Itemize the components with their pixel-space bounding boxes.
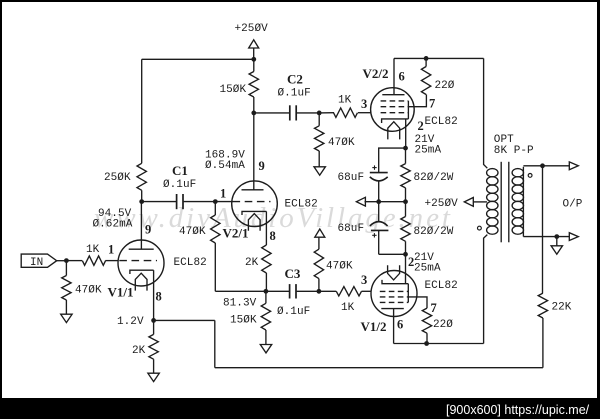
pentode V2/2 suppressor tie: [407, 101, 409, 119]
triode V2/1 heater: [248, 214, 260, 231]
wire cap2 to cathode node: [379, 253, 406, 255]
resistor 1K grid stopper V2/2: [319, 108, 371, 117]
node V2/2 grid junction: [317, 111, 322, 116]
pentode V1/2 cathode: [382, 280, 408, 284]
svg-text:ECL82: ECL82: [174, 257, 207, 269]
svg-text:Ø.1uF: Ø.1uF: [278, 88, 311, 100]
svg-text:6: 6: [399, 70, 405, 84]
svg-text:82Ø/2W: 82Ø/2W: [414, 172, 454, 184]
triode V2/1 cathode: [242, 211, 266, 215]
capacitor C3: [290, 284, 296, 298]
svg-text:7: 7: [431, 301, 437, 315]
wire plate to C2: [254, 112, 289, 114]
node V1/1 plate junction: [139, 199, 144, 204]
wire mid rail: [365, 201, 406, 203]
resistor 250K: [137, 163, 146, 201]
svg-text:8: 8: [156, 290, 162, 304]
node C3 output junction: [317, 289, 322, 294]
wire 470K to 81.3V node: [215, 290, 266, 292]
svg-text:9: 9: [145, 223, 151, 237]
svg-text:C3: C3: [285, 266, 301, 281]
pentode V2/2 heater: [388, 122, 400, 140]
triode V1/1 cathode: [130, 270, 154, 274]
svg-text:25mA: 25mA: [415, 145, 442, 157]
wire rail to primary top: [484, 58, 488, 168]
svg-text:V1/1: V1/1: [108, 285, 134, 300]
svg-text:C1: C1: [172, 163, 188, 178]
resistor 1K input: [66, 256, 105, 265]
svg-text:22Ø: 22Ø: [433, 319, 453, 331]
node mid rail cap junction: [376, 199, 381, 204]
capacitor C2: [290, 105, 296, 120]
svg-text:3: 3: [361, 273, 367, 287]
svg-text:81.3V: 81.3V: [223, 298, 257, 310]
svg-text:[900x600] https://upic.me/: [900x600] https://upic.me/: [446, 403, 590, 417]
pentode V2/2 plate: [382, 94, 404, 96]
node V2/1 plate junction: [251, 111, 256, 116]
pentode V2/2 screen grid: [381, 106, 409, 108]
svg-text:6: 6: [397, 318, 403, 332]
ground output: [551, 237, 562, 255]
svg-text:15ØK: 15ØK: [220, 84, 247, 96]
svg-text:V2/1: V2/1: [223, 226, 249, 241]
pentode V1/2 heater: [388, 265, 400, 280]
node 81.3V junction: [264, 289, 269, 294]
svg-text:ECL82: ECL82: [285, 199, 318, 211]
triode V2/1 envelope: [232, 181, 278, 227]
resistor 220 screen V2/2: [421, 58, 430, 94]
svg-text:68uF: 68uF: [338, 172, 365, 184]
ground below 150K: [260, 345, 271, 353]
triode V2/1 grid: [215, 201, 270, 203]
wire feedback horizontal from 1.2V: [154, 319, 215, 321]
transformer secondary phase dot: [528, 174, 532, 178]
pentode V1/2 screen grid: [380, 296, 409, 298]
wire secondary bottom: [523, 236, 569, 238]
svg-text:22Ø: 22Ø: [435, 80, 455, 92]
ground below 470K: [314, 167, 325, 175]
pentode V2/2 cathode: [382, 119, 409, 123]
node 1: [213, 199, 218, 204]
capacitor 68uF upper: [370, 173, 388, 202]
wire top-left horizontal: [142, 58, 254, 60]
power arrow above 470K: [315, 229, 325, 237]
svg-text:ECL82: ECL82: [425, 116, 458, 128]
svg-text:8K P-P: 8K P-P: [494, 145, 534, 157]
transformer OPT secondary winding: [512, 167, 523, 237]
svg-text:15ØK: 15ØK: [230, 315, 257, 327]
svg-text:+25ØV: +25ØV: [235, 23, 269, 35]
capacitor 68uF upper polarity +: [372, 165, 376, 169]
wire V1/1 plate lead: [140, 202, 142, 250]
wire left vertical to 250K: [141, 59, 143, 163]
svg-text:V2/2: V2/2: [363, 66, 389, 81]
resistor 150K to ground: [261, 291, 270, 344]
svg-text:ECL82: ECL82: [425, 280, 458, 292]
svg-text:1K: 1K: [338, 94, 352, 106]
svg-text:25ØK: 25ØK: [104, 172, 131, 184]
triode V1/1 envelope: [118, 240, 164, 286]
connector IN tag: [21, 254, 57, 267]
svg-text:Ø.1uF: Ø.1uF: [163, 179, 196, 191]
svg-text:1: 1: [108, 243, 114, 257]
node +250V supply junction: [251, 57, 256, 62]
svg-text:1K: 1K: [86, 244, 100, 256]
pentode V2/2 suppressor grid: [381, 100, 409, 102]
resistor 470K grid leak V2/1: [211, 202, 220, 292]
svg-text:Ø.54mA: Ø.54mA: [205, 160, 245, 172]
pentode V2/2 envelope: [371, 88, 415, 132]
wire node to C3: [266, 290, 289, 292]
wire V1/1 cathode lead: [153, 270, 155, 320]
resistor 470K input: [62, 261, 71, 315]
wire C2 to grid node: [297, 112, 319, 114]
svg-text:2K: 2K: [245, 257, 259, 269]
triode V1/1 grid: [106, 260, 158, 262]
resistor 2K cathode V2/1: [262, 245, 271, 291]
pentode V1/2 control grid: [380, 290, 409, 292]
svg-text:IN: IN: [30, 257, 43, 269]
resistor 470K grid leak V1/2: [314, 237, 323, 291]
pentode V2/2 control grid: [381, 112, 409, 114]
node output top junction: [540, 163, 545, 168]
node 220 bottom junction: [424, 341, 429, 346]
wire primary bottom to rail: [484, 235, 488, 344]
ground below input 470K: [61, 314, 72, 322]
capacitor 68uF lower: [370, 202, 389, 255]
svg-text:1: 1: [220, 187, 226, 201]
pentode V1/2 plate: [381, 308, 404, 310]
svg-text:22K: 22K: [552, 302, 572, 314]
svg-text:7: 7: [429, 97, 435, 111]
svg-text:25mA: 25mA: [414, 263, 441, 275]
resistor 2K cathode V1/1: [149, 320, 158, 373]
resistor 150K plate load: [249, 59, 258, 113]
power arrow mid rail: [356, 197, 365, 206]
svg-text:47ØK: 47ØK: [326, 261, 353, 273]
resistor 22K feedback: [538, 293, 547, 368]
wire C1 to node 1: [184, 201, 216, 203]
wire screen to 220: [408, 95, 426, 107]
wire feedback vertical: [214, 320, 216, 367]
svg-text:Ø.62mA: Ø.62mA: [93, 219, 133, 231]
node 220 top junction: [424, 56, 429, 61]
resistor 220 screen V1/2: [422, 308, 431, 343]
svg-text:9: 9: [259, 159, 265, 173]
svg-text:1.2V: 1.2V: [117, 316, 144, 328]
triode V1/1 plate: [129, 248, 154, 250]
pentode V1/2 envelope: [371, 271, 417, 317]
power arrow center tap: [464, 198, 473, 207]
svg-text:C2: C2: [287, 72, 303, 87]
connector output bottom arrow: [569, 233, 578, 241]
wire V2/1 cathode lead: [265, 211, 267, 245]
wire 250K junction to C1: [142, 201, 176, 203]
wire V1/2 cathode lead: [405, 254, 407, 283]
resistor 820/2W lower: [401, 202, 410, 255]
svg-text:1K: 1K: [341, 302, 355, 314]
svg-text:68uF: 68uF: [338, 223, 365, 235]
wire plate rail bottom: [394, 343, 484, 345]
wire V2/2 plate lead: [393, 58, 395, 94]
ground below 2K: [148, 373, 159, 381]
pentode V1/2 suppressor tie: [407, 284, 409, 303]
svg-text:47ØK: 47ØK: [179, 226, 206, 238]
wire cathode to cap1: [379, 148, 406, 173]
wire V2/1 plate lead: [253, 113, 255, 190]
svg-text:47ØK: 47ØK: [75, 285, 102, 297]
node output ground junction: [554, 234, 559, 239]
node mid rail res junction: [403, 199, 408, 204]
wire V1/2 plate lead: [393, 309, 395, 344]
resistor 470K grid leak V2/2: [315, 113, 324, 167]
resistor 1K grid stopper V1/2: [319, 287, 371, 296]
svg-text:47ØK: 47ØK: [328, 137, 355, 149]
resistor 820/2W upper: [401, 148, 410, 202]
pentode V1/2 suppressor grid: [380, 301, 409, 303]
wire feedback bottom run: [215, 367, 543, 369]
svg-text:V1/2: V1/2: [361, 319, 387, 334]
node input junction: [64, 258, 69, 263]
capacitor 68uF lower polarity +: [372, 233, 376, 237]
svg-text:2: 2: [418, 119, 424, 133]
node V1/2 cathode junction: [403, 252, 408, 257]
triode V1/1 heater: [135, 273, 147, 290]
wire secondary top: [523, 165, 569, 167]
svg-text:82Ø/2W: 82Ø/2W: [414, 226, 454, 238]
wire feedback takeoff vertical: [542, 166, 544, 293]
wire screen to 220 lower: [408, 297, 427, 308]
wire C3 to junction: [297, 290, 319, 292]
wire plate rail top: [394, 57, 484, 59]
svg-text:Ø.1uF: Ø.1uF: [277, 306, 310, 318]
svg-text:2K: 2K: [132, 345, 146, 357]
capacitor C1: [177, 194, 183, 209]
transformer OPT primary winding: [487, 169, 498, 235]
triode V2/1 plate: [242, 189, 264, 191]
transformer primary phase dot: [478, 226, 482, 230]
svg-text:+25ØV: +25ØV: [425, 198, 459, 210]
node V2/2 cathode junction: [403, 146, 408, 151]
svg-text:O/P: O/P: [563, 199, 583, 211]
wire V2/2 cathode lead: [405, 119, 407, 148]
connector output top arrow: [569, 162, 578, 170]
node 1.2V junction: [151, 318, 156, 323]
wire center tap: [473, 201, 487, 203]
svg-text:8: 8: [270, 229, 276, 243]
transformer OPT core: [501, 162, 509, 243]
power symbol +250V arrow: [249, 40, 259, 60]
svg-text:3: 3: [361, 97, 367, 111]
wire IN to junction: [57, 260, 67, 262]
